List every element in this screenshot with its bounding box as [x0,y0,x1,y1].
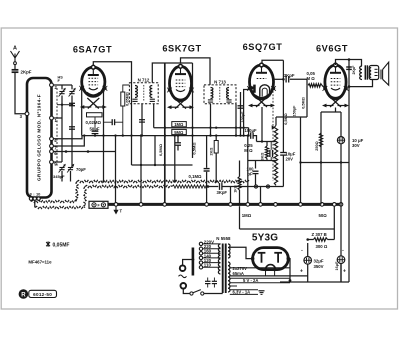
wire to bus [115,136,117,205]
svg-text:GRUPPO GELOSO MOD. Nº1964-F: GRUPPO GELOSO MOD. Nº1964-F [37,94,42,181]
svg-text:MF467≈11e: MF467≈11e [28,260,52,265]
svg-text:6SA7GT: 6SA7GT [73,44,112,54]
svg-text:3KΩ: 3KΩ [260,153,264,161]
wire [123,85,130,92]
wire [71,85,73,89]
switch S1 [190,290,204,296]
mains selector bar [192,248,195,276]
wire HV to 5Y3 left [230,247,253,258]
resistor 1Mohm [172,122,187,127]
wire V4 plate to output transformer [336,60,362,67]
V3 cathode sleeve [260,85,270,97]
wire 1Mohm leg [239,206,241,229]
wire [94,117,96,131]
resistor 0,1Mohm heater [172,185,208,188]
node terminal 3 [25,112,29,116]
svg-text:0,5MΩ: 0,5MΩ [301,97,305,109]
node mains plug top [180,265,186,271]
capacitor 100pF [253,171,259,173]
node A antenna [11,46,20,65]
AC symbol [179,275,187,278]
capacitor 3KpF coupling [286,76,289,82]
wire to bus [247,136,249,205]
svg-text:2KpF: 2KpF [352,65,356,75]
wire over V2 [165,62,193,64]
heater wire wavy B [85,185,172,187]
node tap 220 [199,247,202,250]
wire tap [230,285,237,287]
wire V3 cathode drop [261,107,263,142]
svg-text:N 712: N 712 [138,77,150,82]
tube V4 6V6GT [322,63,349,107]
wire [70,171,72,182]
node tap 160 [199,252,202,255]
svg-text:32μF: 32μF [314,259,324,264]
wire B+ from filament [230,275,308,277]
wire [266,159,268,161]
resistor 0,02Mohm [87,113,103,117]
svg-text:110: 110 [204,263,212,268]
coil N713 secondary [227,88,229,99]
svg-text:70pF: 70pF [76,167,86,172]
wire bottom return [280,281,349,283]
capacitor osc [69,127,75,129]
wire terminal 7 [54,136,85,146]
svg-text:300 Ω: 300 Ω [316,244,328,249]
wire screen line [154,127,249,129]
tube V2 6SK7GT [167,64,194,109]
tube V1 6SA7GT [79,65,107,109]
svg-text:Z 307 B: Z 307 B [312,232,327,237]
capacitor N712 secondary [150,99,155,101]
wire right of V2 [192,63,194,158]
wire [208,186,218,188]
svg-text:3KpF: 3KpF [217,190,228,195]
capacitor padder [69,103,75,105]
speaker [381,62,389,85]
wire [306,85,308,117]
svg-text:0,02MΩ: 0,02MΩ [86,120,102,125]
svg-text:6V6GT: 6V6GT [316,43,348,53]
wire cathode top [321,111,341,113]
wire to grid resistor [290,79,307,85]
wire [174,136,176,182]
svg-text:0,05MF: 0,05MF [53,242,70,248]
wire [240,228,335,230]
wire to switch [183,288,190,293]
capacitor 2KpF antenna series [12,69,32,74]
svg-text:6SK7GT: 6SK7GT [162,43,201,53]
wire [252,186,283,188]
wire [164,63,166,204]
capacitor [204,169,210,171]
node tap 220V [199,242,202,245]
coil LV secondaries [228,262,230,292]
note 0,05MF [46,241,50,246]
wire [154,136,156,165]
wire V3 diode return [244,90,253,136]
svg-text:5MΩ: 5MΩ [174,130,184,135]
resistor 300ohm Z307B [314,238,328,242]
wire N713 down left [210,104,212,136]
wire V1 right down [104,88,106,181]
wire [203,243,221,245]
wire [282,117,284,153]
trimmer 70pF [59,164,66,173]
svg-text:350V: 350V [314,264,324,269]
wire 5V top [230,277,290,279]
wire [257,141,277,143]
capacitor N712 primary [132,99,137,101]
capacitor cathode [270,150,273,157]
wire V1 grid cap to N712 and down [93,62,131,165]
svg-text:5Y3G: 5Y3G [252,232,278,243]
V3 diode plate [253,85,256,93]
output transformer [360,65,379,79]
svg-text:N 713: N 713 [214,79,226,84]
svg-text:N 5558: N 5558 [216,236,231,241]
node tap 120 [199,261,202,264]
svg-text:6SQ7GT: 6SQ7GT [243,42,283,52]
svg-text:2KpF: 2KpF [21,69,32,74]
IF transformer N712 [129,77,158,103]
resistor 0,05Mohm grid [308,84,322,87]
wire [248,128,250,136]
wire [34,200,36,207]
coil N713 primary [211,88,213,99]
wire V1 left to grid line [81,88,83,135]
pot wiper dashed AVC [272,91,274,181]
svg-text:pF: pF [248,171,254,176]
wire [177,136,179,143]
wire [274,270,276,276]
svg-text:1MΩ: 1MΩ [242,213,252,218]
svg-text:8 ↓ 10: 8 ↓ 10 [30,191,42,196]
wire 6,3V bottom [230,293,258,295]
wire [340,112,342,282]
wire [270,142,272,150]
heater wire wavy [35,206,85,208]
wire [104,121,113,123]
node terminal 1 [50,116,54,120]
wire pot top [275,117,277,125]
node terminal 2 [50,83,54,87]
wire [239,190,241,204]
svg-text:R: R [21,293,26,299]
coil OT secondary [370,68,372,78]
wire switch to primary [204,293,223,295]
node tap 140 [199,256,202,259]
wire to bus [206,136,208,205]
wire [215,136,217,141]
wire B+ rail [348,60,350,283]
wire AVC dashed [56,88,58,166]
wire [177,146,179,151]
wire to bus [140,136,142,205]
coil unit GRUPPO GELOSO MOD.N.1964-F [27,78,52,198]
trimmer padder 345pF [67,164,74,173]
wire selector [183,260,193,266]
heater wire wavy [31,200,77,202]
wire osc [57,104,72,106]
wire [328,239,335,241]
wire [260,187,262,205]
node terminal 4 [50,137,54,141]
IF transformer N713 [204,79,236,103]
wire [30,200,32,201]
core dashed [219,87,221,102]
svg-text:0,5MΩ: 0,5MΩ [158,143,163,156]
svg-text:2x270V: 2x270V [233,266,248,271]
svg-text:2KΩ: 2KΩ [210,148,214,156]
variable capacitor tuning section 1 [59,88,66,97]
heater wire wavy [84,187,86,208]
capacitor [280,153,286,156]
wire [115,206,117,210]
svg-text:1MΩ: 1MΩ [174,122,184,127]
wire [340,264,342,283]
wire V3 diode out [274,78,284,80]
wire [203,266,221,268]
wire terminal 2 to tuning [54,84,73,86]
resistor 50ohm leg [333,206,335,229]
node terminal 6 [50,150,54,154]
node terminal 7 [50,144,54,148]
wire cathode [320,112,322,204]
wire [265,270,267,276]
wire left of V2 to bus [164,63,166,204]
ground heater [259,291,265,295]
wire [266,142,268,147]
svg-text:3KpF: 3KpF [284,73,295,78]
wire terminal 9 [54,161,63,163]
chassis bus [108,203,342,206]
svg-text:0,1MΩ: 0,1MΩ [189,174,203,179]
coil OT primary [360,66,362,80]
capacitor [175,143,181,145]
resistor 1Kohm [238,177,241,191]
wire N712 down left [141,104,143,136]
wire B+ screen line [82,135,249,137]
wire antenna to terminal 3 [15,73,26,114]
wire [333,229,335,240]
wire V2 grid cap to N713 [181,58,211,85]
node mains plug bottom [181,283,187,289]
wire down right of V3 [282,60,284,117]
node tap 110 [199,266,202,269]
wire antenna [14,65,16,69]
capacitor 100uF [251,132,253,138]
wire [61,171,63,182]
capacitor [112,119,114,125]
coil N712 secondary [150,86,152,98]
coil N712 primary [135,86,137,98]
svg-text:0,5MΩ: 0,5MΩ [191,142,196,155]
wire grid return to bus [300,117,302,204]
wire [230,187,232,205]
capacitor N713 primary [208,100,213,102]
wire 270V strip [230,267,290,269]
svg-text:16μF: 16μF [335,261,339,271]
electrolytic 32uF 350V [304,257,312,265]
core dashed [143,85,145,101]
wire [301,162,350,164]
wire [61,85,63,89]
power transformer core [223,244,226,294]
wire 5Y3 right to 5V strip [288,259,290,281]
wire voice coil return [349,80,373,87]
svg-text:+: + [343,269,346,275]
wire 100pF line [240,92,242,136]
capacitor N713 secondary [226,100,231,102]
capacitor 2KpF plate [346,67,352,69]
variable capacitor tuning section 2 [69,88,76,97]
svg-text:0,5MΩ: 0,5MΩ [284,113,288,125]
heater wire wavy A [77,180,250,182]
svg-text:20V: 20V [286,156,294,161]
svg-text:T: T [120,209,123,214]
wire [307,264,309,282]
wire [203,257,221,259]
wire [203,248,221,250]
wire [255,174,257,186]
wire 6,3V top [230,289,258,291]
capacitor 100pF [238,106,244,108]
wire terminal 4 [54,136,83,139]
wire [203,262,221,264]
wire [308,239,314,241]
svg-text:6,3V - 1A: 6,3V - 1A [233,290,251,295]
svg-text:+: + [300,269,303,275]
electrolytic 10uF 30V [337,137,344,144]
svg-text:A: A [13,46,17,52]
node terminal 9 [50,160,54,164]
wire [248,160,276,162]
wire [215,153,217,182]
wire [203,252,221,254]
svg-text:250Ω: 250Ω [315,141,319,150]
resistor 250ohm cathode [319,133,322,147]
resistor screen [121,92,125,106]
wire 5V bottom [230,282,290,284]
svg-text:345pF: 345pF [53,174,65,179]
wire [115,121,123,123]
wire N713 down right [235,104,237,136]
wire to V4 grid [322,85,325,88]
capacitor 50uF [92,131,99,133]
svg-text:6012-50: 6012-50 [33,292,52,297]
wire [61,96,63,163]
svg-text:30V: 30V [352,143,360,148]
wire N712 secondary top [152,63,165,83]
resistor 5Mohm [172,129,187,134]
svg-text:M Ω: M Ω [307,76,316,81]
tube V3 6SQ7GT [247,63,276,107]
wire [282,155,284,186]
wire [270,157,272,161]
wire V3 grid cap [262,60,283,63]
wire [335,108,337,113]
heater wire wavy [76,182,78,202]
wire [253,136,256,142]
capacitor 3KpF [220,183,222,190]
resistor 2Kohm [214,141,218,154]
wire [255,161,257,169]
electrolytic 16uF [337,256,345,264]
potentiometer volume 0,5Mohm [274,125,277,185]
capacitor line filter [205,278,217,288]
tube V5 5Y3G rectifier [251,248,290,272]
resistor 3Kohm [265,146,268,159]
logo [19,289,57,299]
svg-text:150pF: 150pF [292,105,296,117]
svg-text:100μF: 100μF [245,128,258,133]
coil primary [218,244,220,274]
wire terminal 6 row [54,151,116,153]
wire N712 down right [153,104,155,128]
wire terminal 1 [54,117,63,119]
svg-text:M Ω: M Ω [244,148,253,153]
wire [132,164,193,166]
wire [71,96,73,169]
wire AVC node [276,116,307,118]
wire [94,134,96,136]
capacitor [139,120,145,122]
wire [222,186,252,188]
wire [239,161,241,177]
fuse box F [89,201,108,208]
svg-text:50Ω: 50Ω [319,213,328,218]
wire [307,243,309,257]
coil HV secondary [228,244,230,258]
wire [122,106,124,136]
